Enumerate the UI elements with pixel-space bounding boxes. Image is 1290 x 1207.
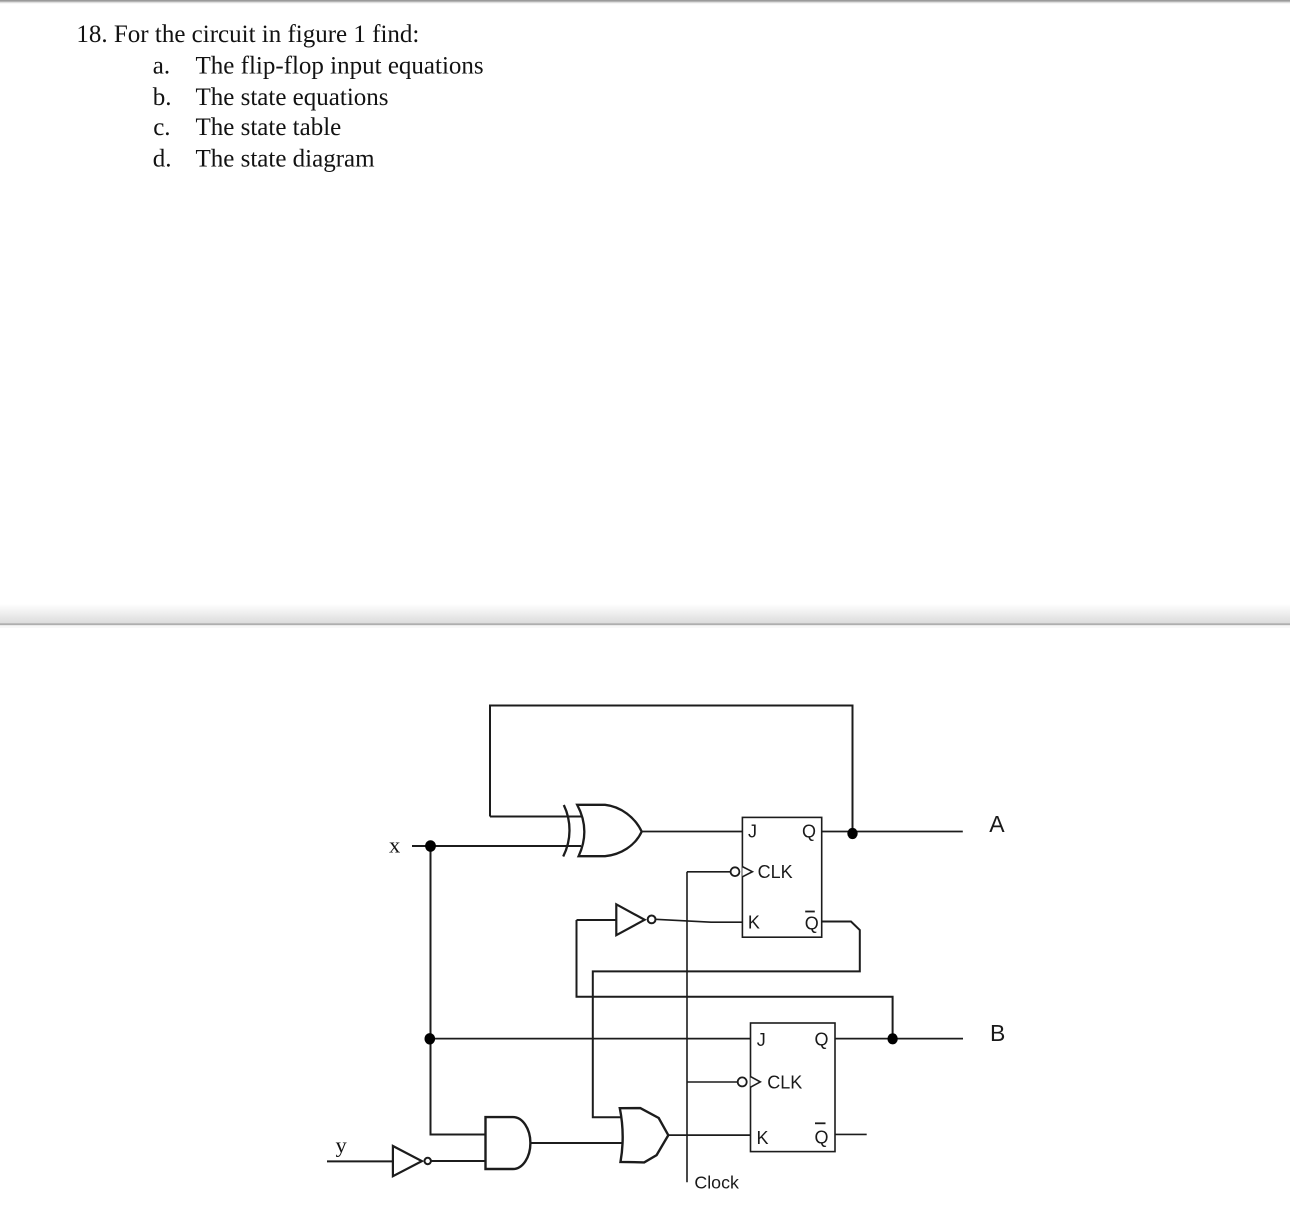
wire CLK2 branch bbox=[687, 1081, 738, 1083]
inverter N1 bubble bbox=[648, 916, 656, 924]
inverter N2 bubble bbox=[425, 1158, 431, 1164]
svg-text:The state table: The state table bbox=[196, 114, 342, 141]
and gate U2 bbox=[486, 1117, 531, 1169]
flip-flop FF2 CLK bubble bbox=[738, 1077, 747, 1086]
svg-text:CLK: CLK bbox=[767, 1072, 802, 1092]
wire Clock vertical line bbox=[686, 872, 688, 1183]
inverter N2 triangle bbox=[393, 1146, 422, 1176]
svg-text:Q: Q bbox=[815, 1029, 829, 1049]
node dot on Q2 output (B) bbox=[887, 1033, 897, 1044]
svg-text:y: y bbox=[336, 1133, 348, 1158]
problem statement text bbox=[76, 21, 483, 173]
wire Qbar1 feedback to OR gate upper input bbox=[593, 922, 860, 1118]
circuit schematic bbox=[327, 706, 963, 1183]
svg-text:A: A bbox=[989, 811, 1005, 837]
svg-text:The state diagram: The state diagram bbox=[196, 145, 376, 172]
svg-text:18. For the circuit in figure: 18. For the circuit in figure 1 find: bbox=[76, 21, 419, 48]
xor gate U1 input arc bbox=[563, 805, 569, 857]
svg-text:The state equations: The state equations bbox=[196, 84, 389, 111]
wire inverter N1 output to K of FF1 bbox=[656, 919, 743, 922]
wire OR output to K of FF2 bbox=[669, 1134, 751, 1136]
wire XOR top input horizontal bbox=[490, 816, 581, 818]
overbar of Qbar FF2 bbox=[815, 1122, 826, 1124]
inverter N1 triangle bbox=[616, 904, 644, 935]
wire XOR output to J of FF1 bbox=[642, 831, 743, 833]
overbar of Qbar FF1 bbox=[805, 911, 815, 913]
svg-text:Q: Q bbox=[815, 1127, 829, 1147]
svg-text:K: K bbox=[757, 1128, 769, 1148]
page break shadow bbox=[0, 604, 1290, 628]
svg-text:B: B bbox=[990, 1020, 1005, 1046]
wire from B node up-around to inverter N1 bbox=[577, 920, 893, 1039]
svg-text:CLK: CLK bbox=[758, 862, 793, 882]
flip-flop FF2 box bbox=[751, 1023, 836, 1152]
svg-text:x: x bbox=[389, 832, 400, 857]
wire AND output to OR lower input bbox=[531, 1142, 624, 1144]
wire Q1 output to A bbox=[822, 831, 963, 833]
svg-text:d.: d. bbox=[153, 145, 172, 172]
flip-flop FF1 CLK bubble bbox=[731, 867, 740, 876]
wire Q2 output to B bbox=[835, 1038, 963, 1040]
flip-flop FF2 CLK triangle bbox=[751, 1077, 761, 1088]
svg-text:The flip-flop input equations: The flip-flop input equations bbox=[196, 52, 484, 79]
wire inverter N1 input bbox=[577, 919, 617, 921]
svg-text:Q: Q bbox=[802, 822, 816, 842]
node dot on Q1 output (A) bbox=[847, 828, 857, 839]
wire inverter N2 output to AND lower input bbox=[431, 1160, 486, 1162]
node dot on x vertical at B row bbox=[425, 1033, 436, 1044]
wire J input of FF2 (B row) bbox=[430, 1038, 751, 1040]
wire CLK1 branch bbox=[687, 871, 731, 873]
wire Qbar2 stub bbox=[835, 1133, 867, 1135]
wire x vertical to AND gate upper input bbox=[431, 846, 487, 1135]
wire x input bbox=[412, 845, 581, 847]
svg-text:K: K bbox=[748, 912, 760, 932]
svg-text:b.: b. bbox=[153, 84, 172, 111]
wire feedback A: Q1 to XOR top input bbox=[490, 706, 853, 832]
flip-flop FF1 CLK triangle bbox=[742, 867, 752, 877]
xor gate U1 body bbox=[577, 805, 642, 856]
or gate U3 bbox=[620, 1108, 669, 1162]
flip-flop FF1 box bbox=[742, 817, 821, 937]
node dot on x input bbox=[425, 840, 436, 852]
svg-text:J: J bbox=[757, 1030, 766, 1050]
top page edge bar bbox=[0, 0, 1290, 4]
svg-text:a.: a. bbox=[153, 52, 170, 79]
svg-text:J: J bbox=[748, 822, 757, 842]
wire y input bbox=[327, 1160, 393, 1162]
svg-text:Q: Q bbox=[805, 913, 819, 933]
svg-text:c.: c. bbox=[153, 114, 170, 141]
svg-text:Clock: Clock bbox=[694, 1173, 739, 1193]
